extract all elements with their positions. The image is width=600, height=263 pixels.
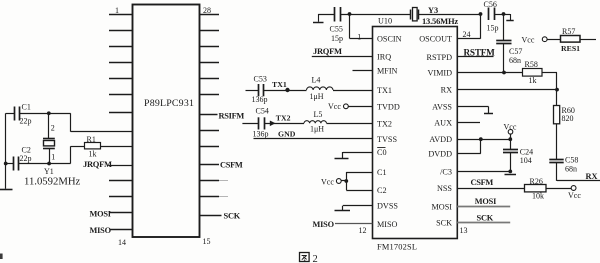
label 15p (331, 34, 343, 43)
svg-text:C56: C56 (484, 0, 497, 9)
pin name RX (441, 86, 452, 95)
svg-text:12: 12 (359, 226, 367, 235)
svg-text:104: 104 (520, 156, 532, 165)
svg-text:C53: C53 (254, 74, 267, 83)
svg-text:JRQFM: JRQFM (83, 159, 112, 169)
pin stub right (199, 78, 219, 80)
wire SCK (457, 222, 510, 224)
pin name /C3 (440, 167, 452, 176)
pin stub left (109, 180, 132, 182)
pin name NSS (437, 184, 452, 193)
pin 2 label (51, 124, 55, 133)
svg-text:15p: 15p (331, 34, 343, 43)
svg-text:SCK: SCK (224, 211, 241, 220)
wire RSTPD (457, 56, 493, 58)
label 1k (89, 150, 97, 159)
net label JRQFM (313, 46, 342, 56)
svg-text:/C3: /C3 (440, 167, 452, 176)
pin name TX1 (377, 86, 392, 95)
svg-text:CSFM: CSFM (220, 161, 243, 170)
svg-text:C0: C0 (377, 148, 387, 157)
wire gnd drop right (510, 14, 512, 21)
pin stub right (199, 94, 219, 96)
scan artifact left edge (0, 254, 3, 260)
wire XTAL to IC (71, 113, 133, 131)
svg-text:AVSS: AVSS (432, 103, 452, 112)
svg-text:TX2: TX2 (377, 119, 392, 128)
svg-text:VIMID: VIMID (427, 69, 452, 78)
wire JRQFM (109, 165, 133, 167)
svg-text:C55: C55 (330, 25, 343, 34)
svg-text:1: 1 (115, 6, 119, 15)
svg-text:22p: 22p (20, 117, 32, 126)
label R58 (525, 60, 538, 69)
svg-text:C2: C2 (377, 186, 387, 195)
net label GND (278, 129, 296, 138)
wire AUX stub (457, 122, 480, 124)
label U10 (378, 17, 392, 26)
label 15p (487, 23, 499, 32)
resistor R60 (554, 90, 560, 159)
svg-text:Y3: Y3 (428, 6, 438, 15)
svg-text:13: 13 (460, 226, 468, 235)
wire CSFM (199, 164, 219, 166)
svg-text:22p: 22p (20, 154, 32, 163)
svg-text:MFIN: MFIN (377, 67, 398, 76)
wire MOSI (110, 212, 132, 214)
label 68n (509, 56, 521, 65)
svg-text:C1: C1 (377, 168, 387, 177)
caption figure 2 (300, 253, 318, 263)
resistor R26 (525, 185, 576, 192)
label 13.56MHz (422, 16, 458, 26)
wire OSCOUT (457, 14, 480, 39)
svg-text:1μH: 1μH (310, 124, 324, 133)
capacitor C24 (503, 139, 518, 171)
pin stub left (109, 112, 132, 114)
port TX1 (272, 80, 287, 89)
svg-text:2: 2 (313, 254, 318, 263)
net label RSTFM (464, 48, 496, 58)
pin 1 label (51, 153, 55, 162)
wire gnd drop left (318, 14, 320, 22)
svg-text:820: 820 (562, 114, 574, 123)
port TX2 (276, 114, 291, 123)
wire TVSS ground rail (254, 138, 373, 140)
power Vcc NSS (568, 191, 581, 200)
pin name AVSS (432, 103, 452, 112)
svg-text:10k: 10k (532, 191, 544, 200)
wire MFIN stub (353, 70, 373, 72)
svg-text:RX: RX (586, 172, 598, 181)
label RES1 (561, 44, 580, 53)
svg-text:2: 2 (51, 124, 55, 133)
power Vcc AVDD (504, 122, 517, 139)
label 1uH (310, 124, 324, 133)
svg-text:11.0592MHz: 11.0592MHz (24, 176, 81, 188)
svg-text:L4: L4 (312, 75, 321, 84)
pin stub left (109, 30, 132, 32)
svg-text:NSS: NSS (437, 184, 452, 193)
capacitor C55 (318, 7, 410, 22)
wire AVDD (457, 137, 512, 141)
svg-text:15: 15 (203, 237, 211, 246)
wire NSS row (457, 188, 524, 190)
pin stub right (199, 62, 219, 64)
faint stub smear (219, 180, 228, 182)
svg-text:RX: RX (441, 86, 452, 95)
label C55 (330, 25, 343, 34)
svg-text:68n: 68n (565, 164, 577, 173)
label 22p (20, 117, 32, 126)
pin stub left (109, 46, 132, 48)
ground (313, 22, 324, 24)
IC U10 FM1702SL body (373, 27, 458, 239)
svg-text:TX2: TX2 (276, 114, 291, 123)
crystal Y3 (411, 8, 481, 21)
pin number 28 (203, 6, 211, 15)
net label SCK (477, 213, 494, 222)
svg-text:1: 1 (357, 33, 361, 42)
svg-text:U10: U10 (378, 17, 392, 26)
pin name DVSS (377, 202, 398, 211)
node crystal top (47, 111, 51, 115)
svg-text:Vcc: Vcc (568, 191, 581, 200)
svg-text:R58: R58 (525, 60, 538, 69)
pin stub right (199, 146, 219, 148)
net label RX (586, 172, 598, 181)
net label MOSI (90, 210, 111, 219)
svg-text:1: 1 (51, 153, 55, 162)
svg-text:SCK: SCK (436, 218, 452, 227)
svg-text:OSCOUT: OSCOUT (419, 35, 452, 44)
label R1 (87, 135, 96, 144)
pin stub right (199, 46, 219, 48)
pin name OSCIN (377, 34, 402, 43)
wire crystal bottom to R1 (71, 146, 86, 163)
svg-text:DVSS: DVSS (377, 202, 398, 211)
node crystal bottom (47, 162, 51, 166)
label 68n (565, 164, 577, 173)
svg-text:C1: C1 (22, 103, 31, 112)
label 10k (532, 191, 544, 200)
svg-text:1μH: 1μH (310, 92, 324, 101)
svg-text:MOSI: MOSI (475, 197, 496, 206)
svg-text:24: 24 (463, 30, 471, 39)
label 1k (529, 76, 537, 85)
svg-text:MISO: MISO (377, 220, 398, 229)
svg-text:TX1: TX1 (272, 80, 287, 89)
capacitor C2 (6, 157, 71, 171)
capacitor C54 (242, 117, 304, 129)
label FM1702SL (377, 243, 417, 252)
label Y1 (44, 167, 54, 176)
svg-text:1k: 1k (89, 150, 97, 159)
svg-text:P89LPC931: P89LPC931 (144, 98, 194, 109)
svg-text:28: 28 (203, 6, 211, 15)
pin stub right (199, 14, 219, 16)
label C54 (256, 107, 269, 116)
pin name DVDD (428, 150, 452, 159)
svg-text:15p: 15p (487, 23, 499, 32)
label L4 (312, 75, 321, 84)
label 820 (562, 114, 574, 123)
svg-text:OSCIN: OSCIN (377, 34, 402, 43)
wire OSCIN (350, 14, 373, 39)
pin stub left (109, 62, 132, 64)
pin name RSTPD (427, 53, 453, 62)
svg-text:R26: R26 (530, 177, 543, 186)
wire MISO (335, 223, 372, 225)
pin name TX2 (377, 119, 392, 128)
svg-text:R1: R1 (87, 135, 96, 144)
pin name IRQ (377, 52, 391, 61)
net label MOSI1 (475, 197, 496, 206)
svg-text:136p: 136p (252, 95, 268, 104)
svg-text:IRQ: IRQ (377, 52, 391, 61)
label R57 (562, 27, 575, 36)
wire RSIFM (199, 114, 218, 116)
net label CSFM (471, 178, 494, 187)
label 22p (20, 154, 32, 163)
IC U? P89LPC931 body (133, 5, 200, 238)
pin name SCK (436, 218, 452, 227)
pin number 12 (359, 226, 367, 235)
inductor L4 (307, 87, 373, 91)
pin stub right (199, 196, 219, 198)
svg-text:DVDD: DVDD (428, 150, 452, 159)
label C53 (254, 74, 267, 83)
svg-text:MOSI: MOSI (90, 210, 111, 219)
pin stub left (109, 14, 132, 16)
net label CSFM (220, 161, 243, 170)
wire /C3 + ground (457, 170, 516, 175)
svg-text:L5: L5 (314, 110, 323, 119)
wire DVDD (457, 139, 481, 153)
pin name AUX (434, 118, 452, 127)
svg-text:MISO: MISO (313, 220, 335, 229)
svg-text:R57: R57 (562, 27, 575, 36)
label 104 (520, 156, 532, 165)
capacitor C53 (246, 84, 307, 96)
wire MOSI (457, 206, 510, 208)
svg-text:CSFM: CSFM (471, 178, 494, 187)
label Y3 (428, 6, 438, 15)
svg-text:RSIFM: RSIFM (219, 111, 245, 120)
pin stub right (199, 180, 219, 182)
resistor R57 (522, 35, 597, 44)
svg-text:Vcc: Vcc (328, 102, 341, 111)
pin name MOSI (432, 202, 453, 211)
wire DVSS + ground (335, 206, 373, 211)
wire RX row (457, 88, 559, 92)
power Vcc TVDD (328, 102, 372, 111)
wire ground rail (5, 113, 7, 189)
inductor L5 (304, 121, 372, 124)
label C1 (22, 103, 31, 112)
svg-text:1k: 1k (529, 76, 537, 85)
port TX2 arrow (270, 121, 276, 127)
pin name TVDD (377, 102, 400, 111)
wire VIMID (457, 71, 522, 75)
pin number 13 (460, 226, 468, 235)
net label SCK (224, 211, 241, 220)
junction rail-C2 (4, 162, 8, 166)
label 1uH (310, 92, 324, 101)
wire MISO (110, 229, 132, 231)
pin name OSCOUT (419, 35, 452, 44)
pin stub right (199, 30, 219, 32)
svg-text:TVSS: TVSS (377, 135, 397, 144)
net label JRQFM (83, 159, 112, 169)
svg-text:SCK: SCK (477, 213, 494, 222)
wire C0 + ground (335, 152, 373, 159)
power Vcc C1 C2 (321, 172, 372, 191)
svg-text:MISO: MISO (90, 226, 112, 235)
net label RSIFM (219, 111, 245, 120)
label L5 (314, 110, 323, 119)
pin number 24 (463, 30, 471, 39)
pin name MFIN (377, 67, 398, 76)
label 136p (253, 130, 269, 139)
pin number 1 (357, 33, 361, 42)
wire AVSS + ground (457, 107, 493, 114)
pin name C1 (377, 168, 387, 177)
capacitor C57 (496, 14, 511, 73)
svg-text:C54: C54 (256, 107, 269, 116)
svg-text:AVDD: AVDD (429, 135, 452, 144)
wire IRQ (312, 56, 373, 58)
net label MISO (90, 226, 112, 235)
svg-text:13.56MHz: 13.56MHz (422, 16, 458, 26)
svg-text:RSTPD: RSTPD (427, 53, 453, 62)
pin name C0(bar) (377, 148, 387, 158)
pin name AVDD (429, 135, 452, 144)
capacitor C56 (489, 8, 511, 21)
pin stub left (109, 78, 132, 80)
svg-text:136p: 136p (253, 130, 269, 139)
capacitor C1 (6, 107, 71, 121)
net label MISO (313, 220, 335, 229)
pin name MISO (377, 220, 398, 229)
pin name TVSS (377, 135, 397, 144)
label C2 (22, 146, 31, 155)
svg-text:GND: GND (278, 129, 296, 138)
capacitor C58 (549, 160, 600, 181)
svg-text:TVDD: TVDD (377, 102, 400, 111)
label R60 (562, 106, 575, 115)
pin number 1 (115, 6, 119, 15)
svg-text:TX1: TX1 (377, 86, 392, 95)
pin name VIMID (427, 69, 452, 78)
svg-text:68n: 68n (509, 56, 521, 65)
svg-text:Vcc: Vcc (321, 177, 334, 186)
pin stub left (109, 196, 132, 198)
label 136p (252, 95, 268, 104)
pin stub right (199, 130, 219, 132)
node TX1 (285, 88, 289, 92)
label C56 (484, 0, 497, 9)
junction C57 (502, 12, 506, 16)
pin number 15 (203, 237, 211, 246)
pin number 14 (118, 238, 126, 247)
pin name C2 (377, 186, 387, 195)
pin stub left (109, 94, 132, 96)
junction OSCOUT (479, 12, 483, 16)
resistor R1 (85, 143, 133, 149)
svg-text:Vcc: Vcc (522, 35, 535, 44)
junction OSCIN (348, 12, 352, 16)
label C24 (520, 147, 533, 156)
svg-text:FM1702SL: FM1702SL (377, 243, 417, 252)
label R26 (530, 177, 543, 186)
label 11.0592MHz (24, 176, 81, 188)
label C58 (565, 156, 578, 165)
label P89LPC931 (144, 98, 194, 109)
wire SCK (199, 215, 222, 217)
svg-text:JRQFM: JRQFM (313, 46, 342, 56)
ground (0, 189, 13, 191)
svg-text:RES1: RES1 (561, 44, 580, 53)
crystal Y1 (43, 113, 55, 163)
svg-text:14: 14 (118, 238, 126, 247)
svg-text:MOSI: MOSI (432, 202, 453, 211)
resistor R58 (523, 69, 558, 90)
svg-text:AUX: AUX (434, 118, 452, 127)
svg-text:C57: C57 (509, 47, 522, 56)
label C57 (509, 47, 522, 56)
ground (506, 20, 513, 22)
faint stub smear (219, 196, 228, 198)
